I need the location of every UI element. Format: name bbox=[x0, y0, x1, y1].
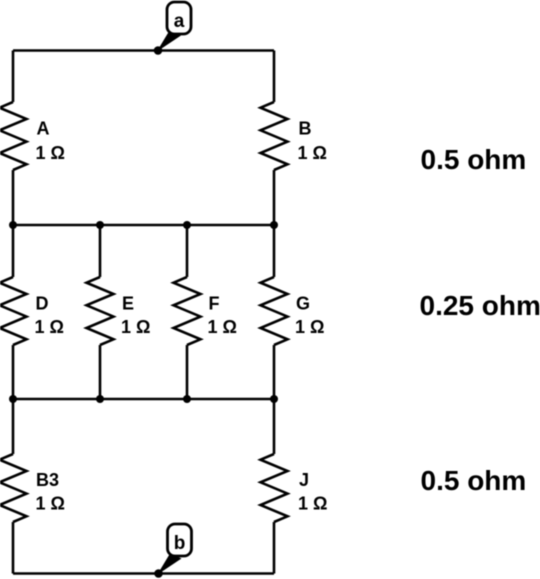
node b terminal dot bbox=[154, 569, 163, 578]
junction dot rail3 E bbox=[96, 395, 104, 403]
node b label box bbox=[168, 524, 192, 556]
node a pointer wedge bbox=[157, 31, 181, 52]
wire: branch D upper stub bbox=[12, 225, 15, 277]
svg-text:F: F bbox=[209, 294, 220, 314]
wire: bottom rail from corner to node b corner bbox=[13, 572, 274, 575]
wire: left branch below rail 3 bbox=[12, 399, 15, 454]
svg-text:1 Ω: 1 Ω bbox=[298, 494, 327, 514]
svg-text:1 Ω: 1 Ω bbox=[35, 317, 64, 337]
wire: right branch to bottom rail bbox=[273, 522, 276, 574]
resistor J bbox=[261, 454, 288, 522]
resistor F bbox=[174, 277, 201, 345]
wire: branch F upper stub bbox=[186, 225, 189, 277]
wire: rail 3 (middle lower rail) bbox=[13, 398, 274, 401]
wire: branch D lower stub bbox=[12, 345, 15, 399]
node a label box bbox=[167, 2, 191, 34]
svg-text:G: G bbox=[296, 294, 310, 314]
junction dot rail3 left bbox=[9, 395, 17, 403]
svg-text:1 Ω: 1 Ω bbox=[208, 317, 237, 337]
svg-text:0.5 ohm: 0.5 ohm bbox=[421, 144, 527, 175]
svg-text:0.5 ohm: 0.5 ohm bbox=[421, 465, 527, 496]
resistor B bbox=[261, 102, 288, 170]
svg-text:J: J bbox=[299, 470, 309, 490]
resistor E bbox=[87, 277, 114, 345]
svg-text:1 Ω: 1 Ω bbox=[36, 143, 65, 163]
junction dot rail2 left bbox=[9, 221, 17, 229]
svg-text:A: A bbox=[37, 119, 50, 139]
wire: top rail from node a corner to corner bbox=[13, 49, 274, 52]
wire: right branch below rail 3 bbox=[273, 399, 276, 454]
svg-text:0.25 ohm: 0.25 ohm bbox=[420, 290, 540, 321]
svg-text:E: E bbox=[122, 294, 134, 314]
wire: branch F lower stub bbox=[186, 345, 189, 399]
resistor D bbox=[0, 277, 27, 345]
svg-text:a: a bbox=[174, 11, 185, 32]
junction dot rail3 right bbox=[270, 395, 278, 403]
node a terminal dot bbox=[154, 46, 163, 55]
wire: right branch to rail 2 bbox=[273, 170, 276, 225]
svg-text:B: B bbox=[299, 119, 312, 139]
svg-text:1 Ω: 1 Ω bbox=[36, 494, 65, 514]
svg-text:1 Ω: 1 Ω bbox=[121, 317, 150, 337]
resistor A bbox=[0, 102, 27, 170]
wire: branch E lower stub bbox=[99, 345, 102, 399]
svg-text:1 Ω: 1 Ω bbox=[295, 317, 324, 337]
svg-text:b: b bbox=[174, 533, 186, 554]
svg-text:D: D bbox=[36, 294, 49, 314]
node b pointer wedge bbox=[157, 554, 181, 575]
junction dot rail2 right bbox=[270, 221, 278, 229]
svg-text:1 Ω: 1 Ω bbox=[298, 143, 327, 163]
junction dot rail2 F bbox=[183, 221, 191, 229]
resistor G bbox=[261, 277, 288, 345]
wire: branch E upper stub bbox=[99, 225, 102, 277]
junction dot rail2 E bbox=[96, 221, 104, 229]
wire: left branch to rail 2 bbox=[12, 170, 15, 225]
junction dot rail3 F bbox=[183, 395, 191, 403]
wire: right branch top stub bbox=[273, 51, 276, 103]
resistor B3 bbox=[0, 454, 27, 522]
wire: left branch to bottom rail bbox=[12, 522, 15, 574]
wire: left branch top stub bbox=[12, 51, 15, 103]
wire: branch G lower stub bbox=[273, 345, 276, 399]
svg-text:B3: B3 bbox=[36, 470, 59, 490]
wire: rail 2 (middle upper rail) bbox=[13, 224, 274, 227]
wire: branch G upper stub bbox=[273, 225, 276, 277]
